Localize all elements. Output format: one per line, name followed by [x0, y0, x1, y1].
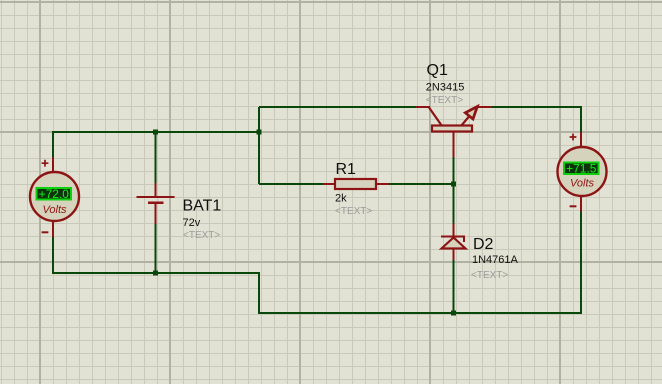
svg-text:<TEXT>: <TEXT> [426, 95, 463, 106]
wire D2 bottom vertical [453, 259, 455, 313]
wire Q1 base down to node [453, 156, 455, 184]
transistor Q1 emitter arrow [465, 107, 477, 120]
transistor Q1 base bar [432, 126, 472, 132]
transistor Q1 emitter diagonal [461, 108, 477, 127]
wire node to D2 top [453, 184, 455, 224]
voltmeter VM1 minus terminal [42, 231, 49, 233]
svg-text:<TEXT>: <TEXT> [471, 270, 508, 281]
voltmeter VM1 pin top [52, 157, 54, 173]
wire middle vertical x=259 [258, 107, 260, 184]
junction middle rail node [257, 130, 262, 135]
battery BAT1 pin bottom [155, 204, 157, 224]
transistor Q1 collector pin [416, 106, 431, 108]
transistor Q1 collector diagonal [429, 108, 442, 127]
voltmeter VM1 LCD display [37, 188, 72, 200]
voltmeter VM1 plus terminal [42, 160, 49, 167]
svg-text:BAT1: BAT1 [183, 198, 222, 215]
voltmeter VM2 pin top [580, 132, 582, 148]
resistor R1 body [335, 179, 376, 189]
svg-text:D2: D2 [473, 236, 494, 253]
voltmeter VM1 pin bottom [52, 221, 54, 237]
wire right vertical to voltmeter2 [580, 106, 582, 133]
svg-text:R1: R1 [336, 161, 357, 178]
svg-text:+71.5: +71.5 [566, 161, 597, 175]
junction D2 bottom node [451, 311, 456, 316]
voltmeter VM2 LCD display [564, 163, 599, 175]
battery BAT1 long plate [137, 196, 175, 198]
svg-text:72v: 72v [183, 217, 201, 229]
svg-text:Q1: Q1 [427, 62, 448, 79]
svg-text:<TEXT>: <TEXT> [335, 206, 372, 217]
battery BAT1 pin top [155, 183, 157, 197]
wire R1 row left [259, 183, 325, 185]
voltmeter VM2 body [558, 147, 607, 196]
voltmeter VM2 plus terminal [570, 134, 577, 141]
transistor Q1 emitter pin [477, 106, 492, 108]
zener diode D2 pin top [453, 224, 455, 238]
svg-text:2N3415: 2N3415 [426, 82, 465, 94]
wire battery top vertical [155, 132, 157, 184]
svg-text:1N4761A: 1N4761A [472, 254, 519, 266]
wire bottom-left horizontal [52, 272, 260, 274]
zener diode D2 pin bottom [453, 249, 455, 261]
wire left vertical below voltmeter [52, 236, 54, 274]
zener diode D2 anode triangle [442, 238, 466, 249]
svg-text:<TEXT>: <TEXT> [183, 230, 220, 241]
wire bottom horizontal [259, 312, 582, 314]
resistor R1 pin left [324, 183, 335, 185]
voltmeter VM2 pin bottom [580, 195, 582, 212]
svg-text:2k: 2k [335, 193, 347, 205]
wire top horizontal to Q1 collector [259, 106, 416, 108]
junction battery top node [153, 130, 158, 135]
svg-text:+72.0: +72.0 [39, 187, 70, 201]
wire bottom step vertical x=259 [258, 272, 260, 314]
voltmeter VM2 minus terminal [570, 205, 577, 207]
voltmeter VM1 body [30, 172, 79, 221]
svg-text:Volts: Volts [570, 178, 595, 190]
transistor Q1 base pin [453, 132, 455, 157]
wire left vertical to voltmeter [52, 131, 54, 158]
resistor R1 pin right [376, 183, 389, 185]
battery BAT1 short plate [148, 202, 164, 205]
wire top right horizontal from Q1 emitter [491, 106, 582, 108]
wire top-left horizontal (battery+ rail) [52, 131, 260, 133]
wire right vertical below voltmeter2 [580, 211, 582, 314]
wire R1 row right to node [388, 183, 455, 185]
junction R1/Q1-base/D2 node [451, 182, 456, 187]
wire battery bottom vertical [155, 223, 157, 273]
zener diode D2 cathode bar [441, 237, 465, 243]
junction battery bottom node [153, 271, 158, 276]
svg-text:Volts: Volts [42, 204, 67, 216]
